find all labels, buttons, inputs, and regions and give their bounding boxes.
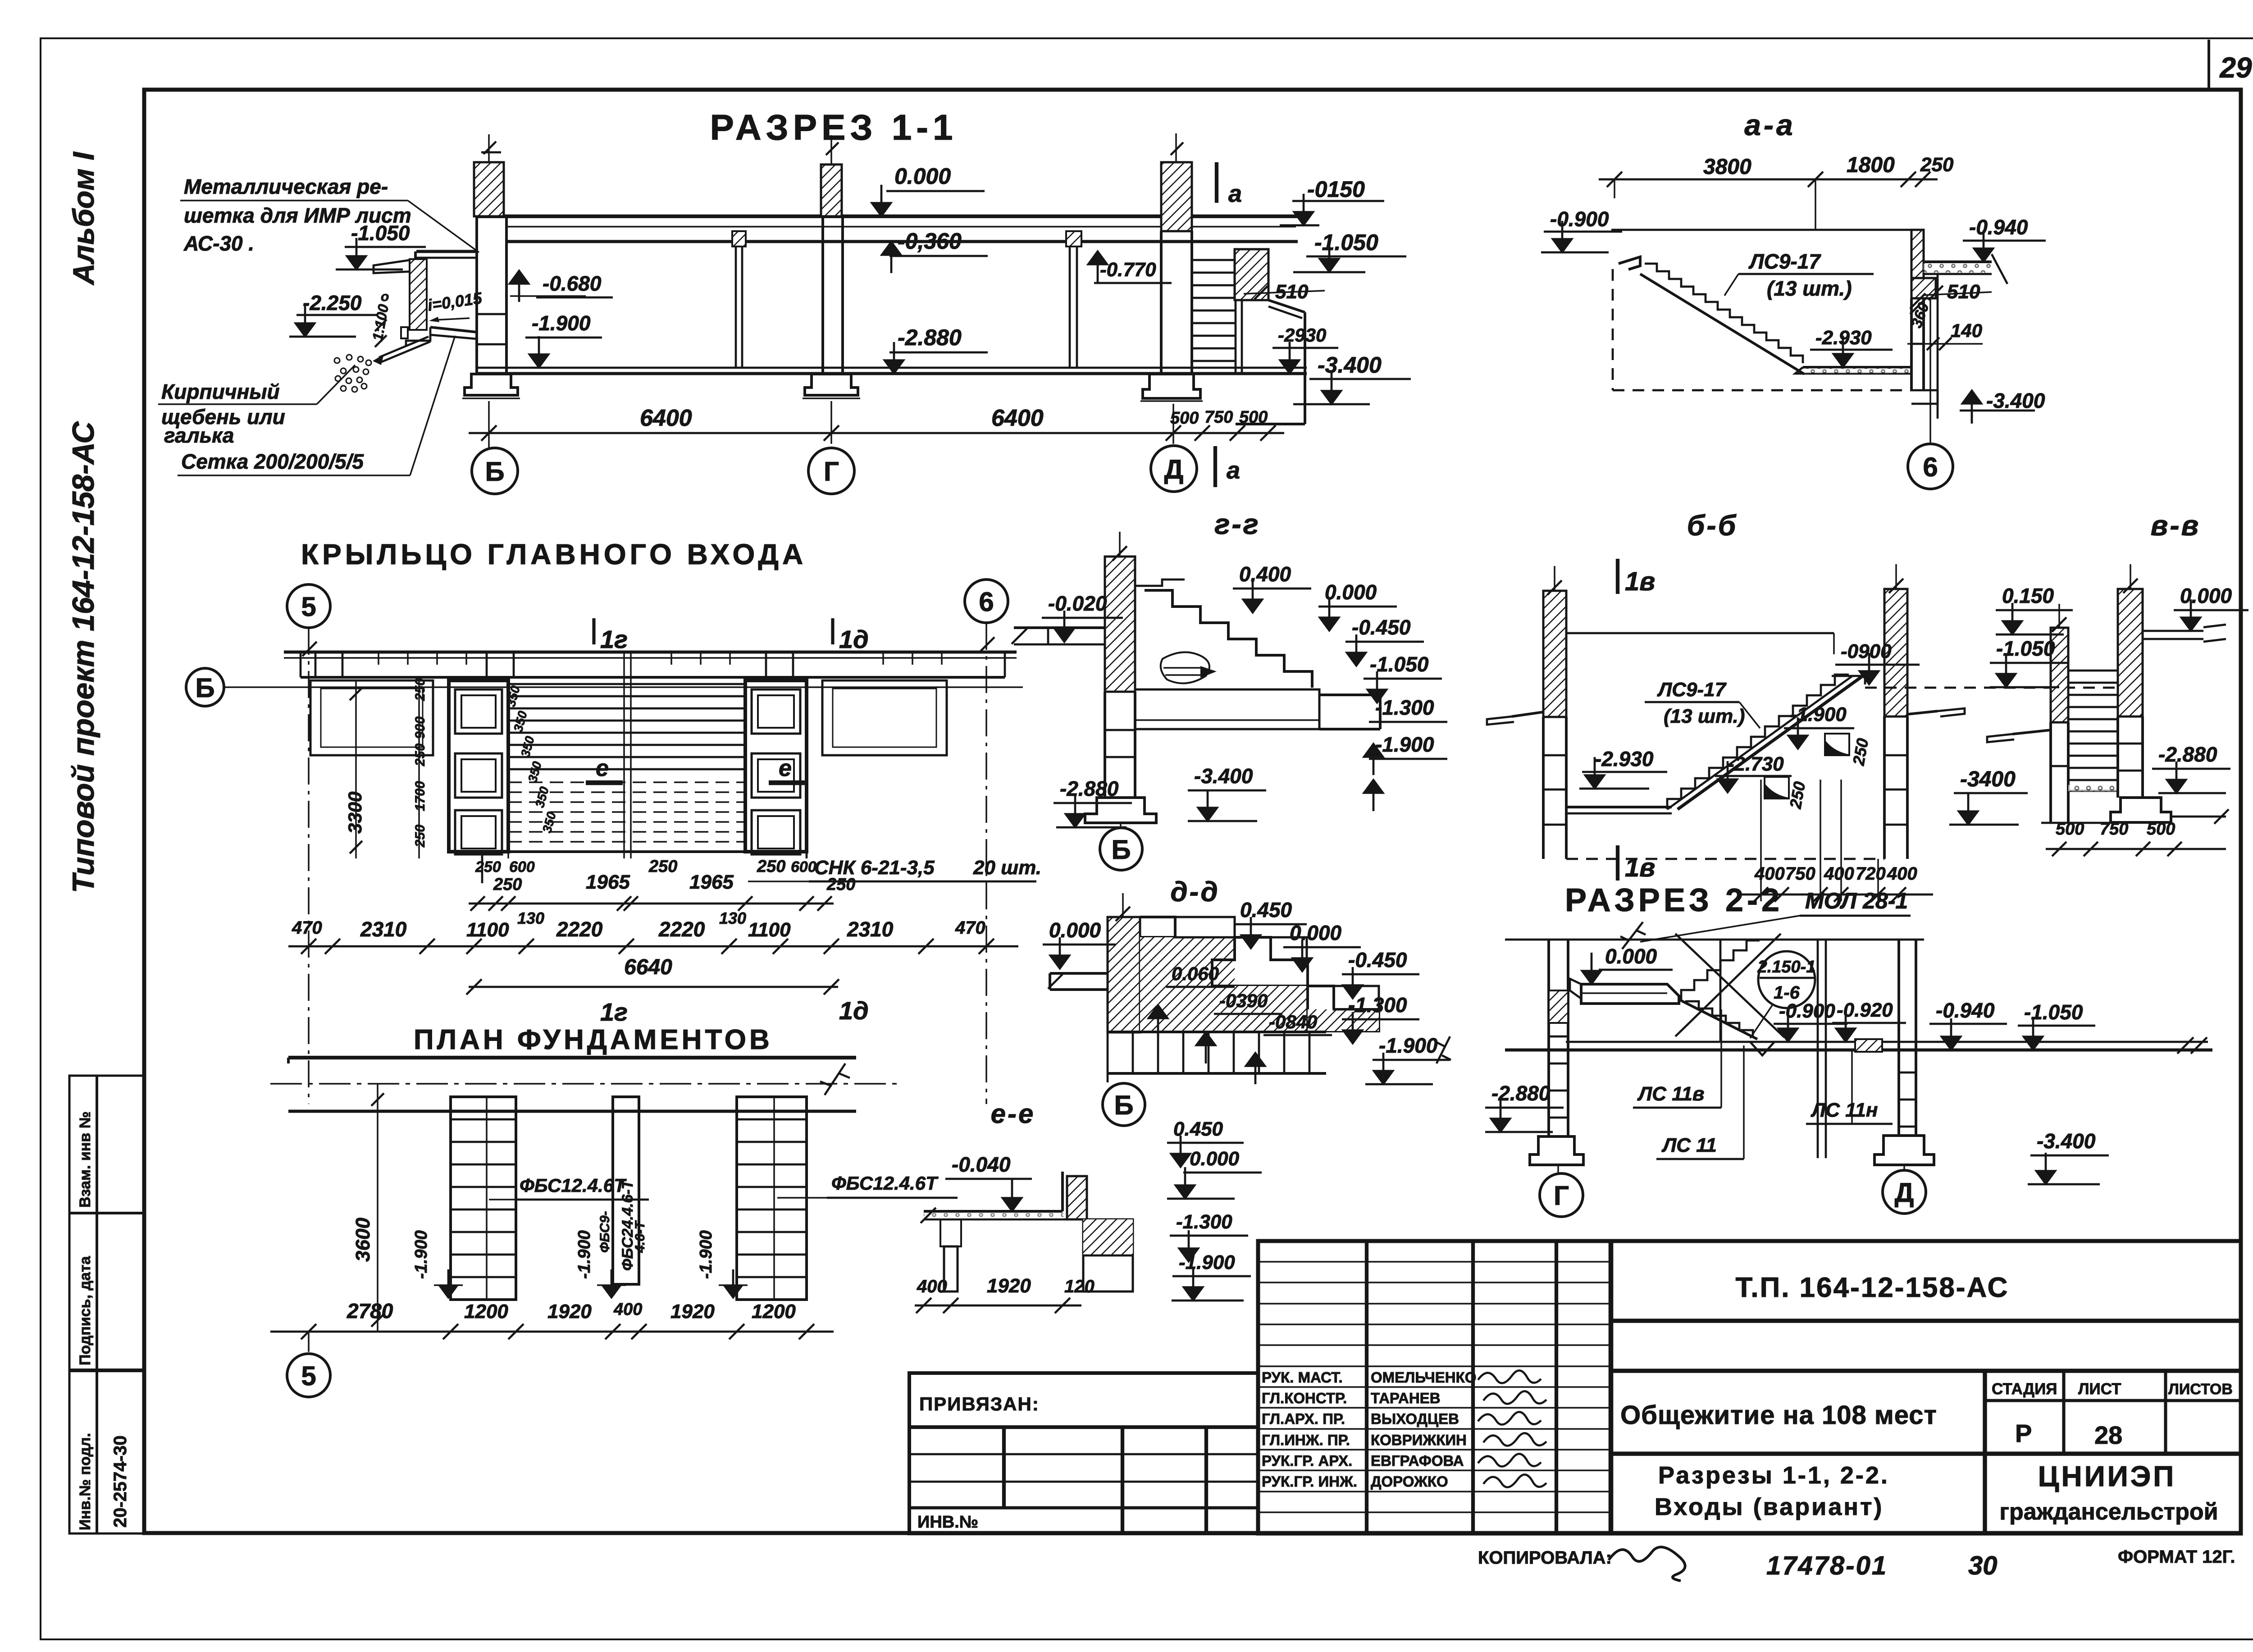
2-2 detail circle 2.150-1 / 1-6 [1758,951,1815,1008]
foundation plan dim 3600 [377,1084,379,1332]
dashed pit outline a-a [1612,269,1614,390]
svg-text:0.000: 0.000 [2180,584,2232,607]
svg-text:-2.880: -2.880 [2158,743,2217,766]
2-2 wall line mid [1719,940,1722,1041]
svg-text:-0.940: -0.940 [1969,215,2028,239]
ground floor slab [476,367,1307,369]
g-g brick blob [1161,652,1209,683]
g-g foundation [1085,798,1156,823]
b-b dashed pit line [1566,858,1884,860]
svg-text:400: 400 [613,1300,642,1319]
svg-text:СТАДИЯ: СТАДИЯ [1992,1380,2057,1398]
dim line a-a [1599,178,1938,181]
svg-text:250: 250 [826,875,855,894]
svg-text:Входы (вариант): Входы (вариант) [1655,1493,1884,1520]
2-2 mid posts [1817,940,1819,1158]
2-2 right column D [1897,940,1900,1136]
svg-text:1965: 1965 [689,871,734,893]
svg-text:1965: 1965 [586,871,630,893]
e-e slab [924,1210,1063,1213]
svg-text:ГЛ.АРХ. ПР.: ГЛ.АРХ. ПР. [1262,1410,1345,1427]
svg-text:а-а: а-а [1744,108,1795,141]
svg-text:0.000: 0.000 [1049,918,1101,942]
e-e wall with parapet [1063,1172,1099,1211]
svg-text:1г: 1г [600,625,628,653]
axis circle D 2-2 [1903,1165,1905,1170]
axis circle B razrez 1-1 [488,444,490,448]
g-g stairs [1135,580,1185,586]
svg-text:0.060: 0.060 [1172,963,1219,984]
svg-text:250: 250 [757,857,785,876]
axis circle B g-g [1120,823,1122,827]
svg-text:0.150: 0.150 [2002,584,2054,607]
svg-text:ГЛ.ИНЖ. ПР.: ГЛ.ИНЖ. ПР. [1262,1432,1350,1448]
svg-text:400: 400 [1754,864,1785,884]
svg-text:400: 400 [1824,864,1854,884]
page number box 29 [2207,40,2210,90]
svg-text:28: 28 [2094,1421,2122,1449]
svg-text:500: 500 [1170,409,1199,428]
e-e small post [940,1219,961,1246]
svg-text:ЛИСТ: ЛИСТ [2078,1380,2121,1398]
foundation plan axis B line [270,1083,897,1085]
svg-text:РУК. МАСТ.: РУК. МАСТ. [1262,1369,1343,1386]
wall axis G shaft [821,216,824,374]
svg-text:Металлическая ре-: Металлическая ре- [184,175,388,198]
sidewalk a-a [1924,260,1992,263]
svg-text:-0.940: -0.940 [1936,999,1995,1022]
foundation plan dim row [270,1331,834,1333]
svg-text:6640: 6640 [624,955,672,979]
svg-text:140: 140 [1951,320,1982,341]
wall band window ticks [378,652,379,665]
svg-text:РУК.ГР. ИНЖ.: РУК.ГР. ИНЖ. [1262,1473,1357,1490]
svg-text:1в: 1в [1625,853,1655,882]
v-v bottom line [2041,822,2118,824]
plan center axis [623,652,625,858]
2-2 top line [1505,939,1924,941]
svg-text:-2.880: -2.880 [898,325,962,350]
2-2 right end ticks [2177,1037,2194,1054]
svg-text:-0,360: -0,360 [898,228,962,254]
svg-text:1д: 1д [839,996,869,1025]
porch stair treads plan [508,683,745,685]
svg-text:Г: Г [1554,1181,1569,1211]
svg-text:-1.900: -1.900 [1375,733,1434,756]
b-b stair diagonal [1678,676,1863,809]
svg-text:900: 900 [413,716,428,739]
svg-text:250: 250 [493,875,522,894]
canopy hatched wall [410,259,427,330]
svg-text:а: а [1227,457,1240,484]
plan left dim chain 3300 [355,680,357,858]
svg-text:КОПИРОВАЛА:: КОПИРОВАЛА: [1478,1548,1612,1568]
svg-text:Б: Б [1114,1090,1133,1120]
svg-text:1200: 1200 [464,1301,508,1323]
svg-text:е: е [779,755,792,781]
svg-text:-1.900: -1.900 [1379,1034,1438,1057]
v-v foundation [2111,798,2171,822]
d-d stepped mass [1140,917,1175,937]
svg-text:-2930: -2930 [1278,324,1326,346]
svg-text:-1.050: -1.050 [1370,653,1429,676]
svg-text:500: 500 [2056,820,2084,839]
2-2 lower stair flight [1685,1001,1753,1037]
svg-text:-3.400: -3.400 [1986,389,2045,412]
svg-text:Подпись, дата: Подпись, дата [77,1255,94,1365]
svg-text:граждансельстрой: граждансельстрой [1999,1499,2218,1525]
svg-text:ИНВ.№: ИНВ.№ [917,1513,978,1532]
svg-text:130: 130 [719,909,746,927]
b-b ceiling line [1566,632,1834,634]
svg-text:д-д: д-д [1170,876,1219,908]
stringer a-a [1640,274,1804,374]
porch side hatched wall [1235,249,1268,300]
svg-text:-1.900: -1.900 [1179,1251,1235,1273]
2-2 floor slab [1566,1041,2208,1043]
svg-text:130: 130 [517,909,544,927]
stadia list listov header [1985,1399,2241,1402]
b-b ledge right outside [1907,711,1938,714]
svg-text:-1.900: -1.900 [412,1230,431,1279]
svg-text:ЛС 11: ЛС 11 [1661,1134,1717,1156]
plan inner dim 350s [507,684,509,858]
foundation strip 1 [451,1097,516,1300]
svg-text:6400: 6400 [640,405,692,431]
svg-text:5: 5 [301,1361,316,1391]
left pier with niches [449,680,508,852]
stair a-a [1619,257,1640,269]
signatures scribbles [1478,1370,1541,1383]
svg-text:470: 470 [955,918,985,938]
svg-text:РУК.ГР. АРХ.: РУК.ГР. АРХ. [1262,1452,1352,1469]
gravel chute [379,337,429,357]
svg-text:-0150: -0150 [1307,177,1365,202]
svg-text:ФБС12.4.6Т: ФБС12.4.6Т [520,1175,627,1196]
svg-text:-1.900: -1.900 [575,1230,594,1279]
g-g floor ledge left [1014,626,1105,629]
axis circle 6 plan [965,580,1008,623]
gravel dots patch [334,358,340,363]
svg-text:б-б: б-б [1687,509,1738,542]
axis circle B d-d [1123,1082,1125,1083]
svg-text:Д: Д [1164,454,1184,484]
entrance canopy left of axis B [416,250,477,253]
svg-text:Т.П. 164-12-158-АС: Т.П. 164-12-158-АС [1736,1272,2009,1303]
porch coping slope [1268,300,1305,312]
b-b top landing step [1832,676,1865,685]
svg-text:2310: 2310 [847,917,894,941]
svg-text:КОВРИЖКИН: КОВРИЖКИН [1371,1432,1467,1448]
svg-text:Г: Г [824,456,839,487]
svg-text:-0840: -0840 [1269,1011,1317,1032]
svg-text:-2.250: -2.250 [303,291,362,315]
axis line 5 vertical [308,628,310,1104]
svg-text:ПЛАН ФУНДАМЕНТОВ: ПЛАН ФУНДАМЕНТОВ [414,1024,773,1055]
plan dim row 2 [288,945,1018,948]
svg-text:е: е [596,755,609,781]
roof slab [476,214,1298,218]
svg-text:30: 30 [1968,1551,1998,1580]
svg-text:ЛС 11н: ЛС 11н [1811,1099,1878,1121]
svg-text:шетка для ИМР лист: шетка для ИМР лист [184,204,411,227]
svg-text:ФОРМАТ 12Г.: ФОРМАТ 12Г. [2118,1547,2235,1567]
foundation plan top wall line [288,1056,856,1059]
svg-text:АС-30 .: АС-30 . [183,232,254,255]
svg-text:20 шт.: 20 шт. [973,857,1041,879]
svg-text:-2.730: -2.730 [1728,753,1784,775]
plan dim row 3 total 6640 [469,986,838,988]
svg-text:2.150-1: 2.150-1 [1757,958,1816,977]
svg-text:500: 500 [2147,820,2175,839]
svg-text:250: 250 [413,825,428,848]
svg-text:250: 250 [413,744,428,767]
porch outer wall [1304,312,1306,424]
svg-text:750: 750 [1785,864,1815,884]
e-e lower wall blocks [1083,1219,1133,1291]
svg-text:6: 6 [1923,452,1938,482]
interior post 2 [1066,231,1081,246]
2-2 landing slab [1581,984,1679,1004]
svg-text:600: 600 [509,858,535,876]
svg-text:-1.050: -1.050 [1996,637,2055,660]
right side room plan [822,680,947,755]
break mark foundation plan [820,1063,850,1095]
d-d niche rects [1175,917,1235,937]
svg-text:-0900: -0900 [1841,640,1892,662]
svg-text:МОЛ 28-1: МОЛ 28-1 [1805,888,1908,913]
parapet pier axis G [821,164,842,216]
svg-text:ДОРОЖКО: ДОРОЖКО [1371,1473,1448,1490]
svg-text:1100: 1100 [466,919,509,941]
svg-text:3300: 3300 [344,792,365,834]
svg-text:-0.900: -0.900 [1550,207,1609,231]
svg-text:-3400: -3400 [1960,767,2016,791]
plan left dim chain 250-1700 [418,680,420,858]
svg-text:(13 шт.): (13 шт.) [1767,277,1852,300]
svg-text:0.000: 0.000 [1290,921,1342,945]
svg-text:20-2574-30: 20-2574-30 [110,1435,130,1528]
svg-text:Альбом I: Альбом I [67,151,100,286]
svg-text:0.000: 0.000 [1190,1148,1240,1170]
svg-text:750: 750 [1204,408,1233,427]
b-b ledge left outside [1512,712,1543,716]
svg-text:Кирпичный: Кирпичный [161,380,280,403]
lower platform edge plan [482,850,807,853]
svg-text:Б: Б [195,673,214,703]
break mark d-d right [1436,1036,1451,1063]
svg-text:Сетка 200/200/5/5: Сетка 200/200/5/5 [181,450,364,473]
svg-text:0.000: 0.000 [1605,945,1657,968]
svg-text:е-е: е-е [991,1099,1035,1129]
retaining wall a-a [1911,230,1924,297]
v-v stair treads [2068,670,2118,672]
axis circle 6 a-a [1929,298,1931,445]
b-b left wall [1543,591,1566,717]
svg-text:0.400: 0.400 [1239,562,1291,586]
svg-text:Взам. инв №: Взам. инв № [77,1111,94,1208]
svg-text:600: 600 [791,858,816,876]
ramp left drop [406,327,430,346]
svg-text:а: а [1228,180,1242,207]
svg-text:29: 29 [2219,51,2252,84]
svg-text:-0390: -0390 [1219,990,1268,1011]
svg-text:ФБС9-: ФБС9- [597,1211,612,1253]
object name cell [1983,1371,1987,1533]
svg-text:720: 720 [1856,864,1886,884]
svg-text:-1.300: -1.300 [1375,696,1434,719]
svg-text:ЛС9-17: ЛС9-17 [1748,250,1821,273]
interior post 1 [732,231,746,246]
svg-text:ГЛ.КОНСТР.: ГЛ.КОНСТР. [1262,1390,1347,1406]
svg-text:-0.450: -0.450 [1348,948,1407,972]
2-2 foundation G [1530,1136,1583,1165]
title block outline [1258,1241,2241,1533]
svg-text:1100: 1100 [748,919,791,941]
svg-text:2220: 2220 [658,917,705,941]
parapet pier axis D [1161,162,1192,231]
svg-text:-1.900: -1.900 [532,311,591,335]
svg-text:в-в: в-в [2151,509,2201,542]
axis circle 5 plan [287,584,330,628]
dimension line razrez 1-1 [469,432,1284,434]
svg-text:250: 250 [475,858,501,876]
foundation strip 2 [613,1097,639,1284]
svg-text:галька: галька [164,424,234,447]
left margin stamp boxes [69,1076,143,1533]
svg-text:1200: 1200 [752,1301,796,1323]
left side room plan [310,680,433,755]
privyazan block [909,1373,1258,1533]
svg-text:750: 750 [2100,820,2128,839]
leader to grille [408,201,479,252]
axis circle G 2-2 [1557,1165,1559,1173]
svg-text:-0.770: -0.770 [1100,259,1156,281]
entrance ramp [430,327,477,332]
svg-text:510: 510 [1947,281,1980,303]
b-b right wall [1884,589,1907,716]
svg-text:Типовой проект 164-12-158-АС: Типовой проект 164-12-158-АС [66,421,100,893]
svg-text:3800: 3800 [1703,155,1751,179]
svg-text:-0.680: -0.680 [543,272,602,295]
svg-text:-1.300: -1.300 [1176,1211,1232,1233]
v-v left thin wall [2051,628,2068,722]
svg-text:-3.400: -3.400 [1318,352,1382,378]
svg-text:500: 500 [1239,408,1268,427]
svg-text:1г: 1г [600,998,628,1026]
d-d foundation blocks row [1108,1031,1326,1033]
corner detail squares b-b [1825,734,1849,755]
svg-text:Д: Д [1895,1177,1914,1208]
right pier with niches [745,680,807,852]
svg-text:250: 250 [648,857,677,876]
svg-text:КРЫЛЬЦО ГЛАВНОГО ВХОДА: КРЫЛЬЦО ГЛАВНОГО ВХОДА [301,538,807,570]
svg-text:ТАРАНЕВ: ТАРАНЕВ [1371,1390,1441,1406]
g-g landing slab [1135,689,1319,729]
wall outer face a-a [1937,274,1939,419]
svg-text:17478-01: 17478-01 [1766,1551,1888,1580]
wall axis B below roof [475,216,478,374]
svg-text:(13 шт.): (13 шт.) [1664,705,1745,727]
axis line 6 vertical [985,623,987,1104]
svg-text:120: 120 [1064,1277,1095,1296]
b-b dim row [1739,894,1933,896]
svg-text:250: 250 [413,678,428,701]
2-2 upper stair flight [1681,940,1760,1000]
svg-text:Б: Б [485,456,504,487]
svg-text:1д: 1д [839,625,869,653]
porch steps right of axis D [1192,259,1236,261]
svg-text:ЛИСТОВ: ЛИСТОВ [2168,1381,2233,1398]
svg-text:Р: Р [2015,1419,2032,1447]
svg-text:6: 6 [979,587,994,617]
d-d left wall [1108,917,1140,1032]
foundation strip 3 [737,1097,807,1300]
v-v dim row [2046,848,2226,850]
foundation plan cross wall line [288,1109,856,1113]
svg-text:0.000: 0.000 [894,164,951,189]
svg-text:ВЫХОДЦЕВ: ВЫХОДЦЕВ [1371,1410,1459,1427]
section mark a lower [1213,446,1217,487]
axis circle D razrez 1-1 [1151,446,1197,492]
plan dim row 1 [469,903,834,905]
v-v right ledge [2143,630,2203,632]
ground line a-a [1611,229,1911,231]
b-b stair steps [1667,675,1849,809]
e-e dim row [915,1305,1081,1307]
d-d step 2 [1212,937,1308,986]
svg-text:ЦНИИЭП: ЦНИИЭП [2038,1460,2176,1492]
svg-text:-2.930: -2.930 [1595,747,1654,771]
svg-text:Разрезы 1-1, 2-2.: Разрезы 1-1, 2-2. [1658,1462,1889,1489]
svg-text:о: о [381,289,389,304]
svg-text:Б: Б [1111,835,1131,865]
plan wall band [284,650,1017,653]
2-2 left column G [1547,940,1550,1136]
svg-text:0.450: 0.450 [1240,898,1292,922]
svg-text:-0.040: -0.040 [952,1153,1011,1176]
svg-text:-1.900: -1.900 [697,1230,716,1279]
v-v right wall [2118,589,2143,716]
svg-text:0.000: 0.000 [1325,580,1377,604]
svg-text:ЛС 11в: ЛС 11в [1637,1083,1704,1105]
svg-text:-3.400: -3.400 [2037,1129,2096,1153]
svg-text:г-г: г-г [1214,508,1260,540]
landing a-a [1803,366,1911,369]
svg-text:400: 400 [917,1277,947,1296]
wall axis D shaft [1160,231,1163,374]
foundation axis G [805,374,858,395]
svg-text:ПРИВЯЗАН:: ПРИВЯЗАН: [919,1393,1040,1415]
svg-text:-1.300: -1.300 [1348,993,1407,1017]
svg-text:ФБС12.4.6Т: ФБС12.4.6Т [831,1173,939,1194]
step block a-a bottom [1911,390,1938,404]
svg-text:1700: 1700 [413,781,428,811]
svg-text:2220: 2220 [556,917,603,941]
g-g wall [1105,557,1135,692]
v-v left flange [2012,730,2051,734]
svg-text:1920: 1920 [670,1301,715,1323]
svg-text:1920: 1920 [547,1301,592,1323]
parapet pier axis B [474,162,504,216]
svg-text:2310: 2310 [360,917,407,941]
svg-text:1800: 1800 [1847,153,1895,177]
b-b bottom floor [1565,806,1672,808]
svg-text:400: 400 [1887,864,1917,884]
2-2 foundation D [1874,1136,1934,1165]
svg-text:Инв.№ подл.: Инв.№ подл. [77,1433,94,1530]
main title cell T.P. 164-12-158-AS [1611,1319,2241,1323]
